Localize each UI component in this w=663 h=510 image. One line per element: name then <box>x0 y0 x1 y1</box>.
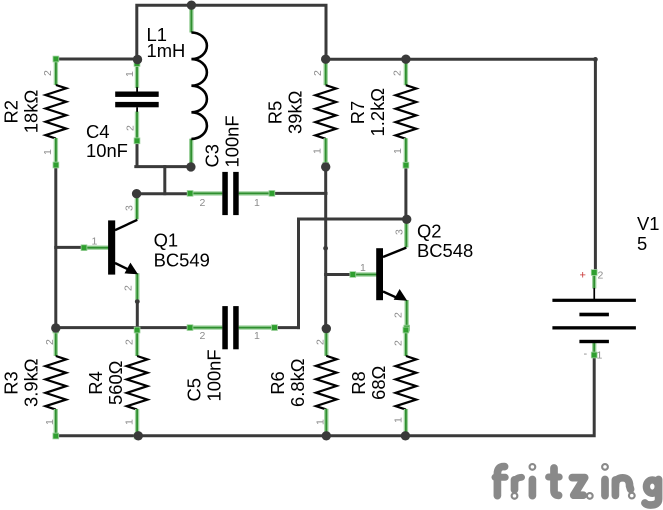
svg-text:V1: V1 <box>637 213 660 234</box>
svg-text:1: 1 <box>254 330 260 342</box>
svg-text:3.9kΩ: 3.9kΩ <box>21 358 42 407</box>
svg-text:1: 1 <box>44 419 56 425</box>
svg-text:2: 2 <box>598 270 604 282</box>
svg-text:C4: C4 <box>86 121 110 142</box>
svg-text:2: 2 <box>122 285 134 291</box>
svg-text:100nF: 100nF <box>204 349 225 401</box>
svg-text:1: 1 <box>92 236 98 248</box>
svg-text:100nF: 100nF <box>222 115 243 167</box>
svg-text:39kΩ: 39kΩ <box>285 91 306 134</box>
svg-text:R8: R8 <box>348 371 369 395</box>
svg-text:1: 1 <box>597 350 603 362</box>
svg-text:1: 1 <box>315 419 327 425</box>
svg-text:2: 2 <box>125 125 137 131</box>
svg-text:2: 2 <box>392 70 404 76</box>
svg-text:2: 2 <box>44 339 56 345</box>
svg-text:1.2kΩ: 1.2kΩ <box>367 88 388 137</box>
svg-text:10nF: 10nF <box>86 140 128 161</box>
svg-text:6.8kΩ: 6.8kΩ <box>287 358 308 407</box>
svg-text:2: 2 <box>393 340 405 346</box>
svg-text:2: 2 <box>200 330 206 342</box>
svg-text:1: 1 <box>124 419 136 425</box>
svg-text:1: 1 <box>360 262 366 274</box>
svg-text:+: + <box>580 270 586 282</box>
svg-text:18kΩ: 18kΩ <box>21 90 42 133</box>
svg-text:R5: R5 <box>265 101 286 125</box>
svg-text:R7: R7 <box>347 101 368 125</box>
svg-text:1: 1 <box>42 149 54 155</box>
svg-text:2: 2 <box>200 197 206 209</box>
svg-text:-: - <box>584 348 588 360</box>
svg-text:1: 1 <box>392 148 404 154</box>
svg-text:Q2: Q2 <box>417 220 442 241</box>
svg-text:1: 1 <box>254 197 260 209</box>
svg-text:C5: C5 <box>184 378 205 402</box>
svg-text:BC548: BC548 <box>417 240 473 261</box>
svg-text:5: 5 <box>637 233 647 254</box>
svg-text:1: 1 <box>312 148 324 154</box>
svg-text:2: 2 <box>42 70 54 76</box>
svg-text:R2: R2 <box>1 100 22 124</box>
svg-text:R4: R4 <box>85 371 106 395</box>
svg-text:R3: R3 <box>1 371 22 395</box>
svg-text:2: 2 <box>124 339 136 345</box>
svg-text:C3: C3 <box>202 144 223 168</box>
svg-text:560Ω: 560Ω <box>105 361 126 405</box>
svg-text:3: 3 <box>393 229 405 235</box>
svg-text:1: 1 <box>393 417 405 423</box>
svg-text:1mH: 1mH <box>147 40 186 61</box>
svg-text:68Ω: 68Ω <box>368 366 389 400</box>
svg-text:1: 1 <box>124 71 136 77</box>
svg-text:Q1: Q1 <box>154 230 179 251</box>
svg-text:2: 2 <box>312 70 324 76</box>
svg-text:3: 3 <box>123 205 135 211</box>
svg-text:BC549: BC549 <box>154 250 210 271</box>
svg-text:2: 2 <box>315 339 327 345</box>
svg-text:R6: R6 <box>267 371 288 395</box>
svg-text:2: 2 <box>393 312 405 318</box>
